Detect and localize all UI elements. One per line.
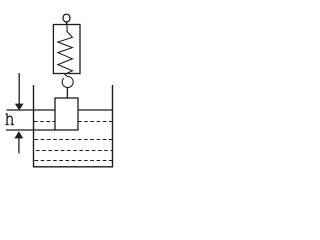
spring box [53,25,80,74]
dashed liquid line 4 [35,160,113,162]
water surface line right [78,109,113,111]
container walls and bottom [34,85,113,167]
dashed liquid line 2 [35,139,113,141]
dashed liquid line 3 [36,150,112,152]
hook [62,74,73,87]
up arrow head [14,131,23,138]
dashed liquid line upper left [34,121,55,123]
water surface line left [7,109,56,111]
down arrow shaft [18,73,20,105]
label h [6,113,14,124]
string from hook to block [66,88,68,98]
spring S1 [58,25,73,74]
block (partially submerged) [55,98,78,130]
post connecting ring to spring box [66,22,68,25]
dimension tick at block bottom [6,129,55,131]
up arrow shaft [18,138,20,154]
down arrow head [15,104,24,111]
ring at top of spring box [63,14,70,22]
dashed liquid line upper right [78,121,112,123]
